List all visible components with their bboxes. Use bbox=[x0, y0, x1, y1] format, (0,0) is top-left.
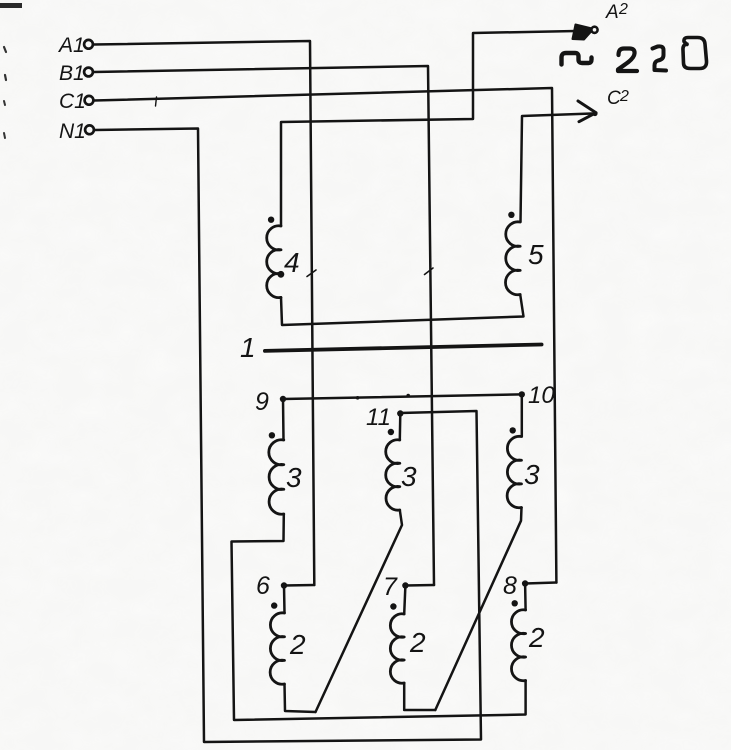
tick mark on A1 vertical bbox=[307, 270, 316, 277]
node 9 dot bbox=[280, 396, 286, 402]
winding 5 polarity dot bbox=[508, 212, 514, 218]
svg-text:10: 10 bbox=[528, 382, 555, 409]
winding 2c polarity dot bbox=[512, 600, 518, 606]
winding 2a coil bbox=[270, 613, 284, 684]
winding 2a polarity dot bbox=[271, 602, 277, 608]
wire node9 down to winding 3a bbox=[282, 399, 285, 440]
svg-text:2: 2 bbox=[409, 627, 426, 658]
svg-text:2: 2 bbox=[618, 1, 628, 18]
winding 2c coil bbox=[511, 610, 525, 681]
winding 3b polarity dot bbox=[388, 429, 394, 435]
winding 4 coil bbox=[267, 226, 281, 298]
svg-text:N1: N1 bbox=[59, 120, 86, 143]
terminal B1 circle bbox=[84, 68, 93, 77]
wire node7 down to winding 2b bbox=[404, 586, 405, 615]
svg-text:A: A bbox=[605, 2, 619, 23]
wire node11 down to winding 3b bbox=[399, 414, 402, 441]
wire coil4 bottom to coil5 bottom bbox=[281, 295, 524, 326]
winding 4 polarity dot bbox=[268, 217, 274, 223]
wire node10 down to winding 3c bbox=[521, 394, 524, 436]
terminal C1 circle bbox=[85, 96, 94, 105]
wire winding2a bottom step bbox=[285, 684, 316, 712]
wire B1 horizontal to vertical down bbox=[94, 66, 435, 585]
tick mark on C1 wire bbox=[156, 97, 157, 106]
svg-text:A1: A1 bbox=[57, 34, 85, 57]
svg-text:1: 1 bbox=[240, 332, 256, 363]
winding 3c coil bbox=[507, 436, 521, 507]
svg-text:9: 9 bbox=[255, 388, 269, 416]
arrow A2 head bbox=[573, 25, 594, 40]
svg-text:C: C bbox=[607, 88, 621, 109]
wire coil5 top to C2 arrow bbox=[521, 114, 593, 223]
wire node6 step up to A1 vertical bbox=[284, 584, 314, 587]
wire C1 horizontal to vertical down bbox=[94, 88, 556, 583]
node 10 dot bbox=[519, 391, 525, 397]
svg-text:2: 2 bbox=[619, 88, 629, 105]
node 6 dot bbox=[281, 582, 287, 588]
svg-text:3: 3 bbox=[286, 462, 302, 493]
value digit 2 (first) bbox=[618, 49, 637, 72]
wire node8 down to winding 2c bbox=[524, 584, 527, 611]
winding 3c polarity dot bbox=[510, 427, 516, 433]
svg-text:2: 2 bbox=[289, 629, 306, 660]
scan speck left margin 1 bbox=[4, 47, 6, 52]
scan speck left margin 2 bbox=[5, 75, 6, 80]
wire N1 to bottom outer rail bbox=[95, 129, 482, 743]
arrow A2 tip circle bbox=[591, 27, 597, 33]
svg-text:7: 7 bbox=[383, 573, 398, 601]
speck on 9-10 wire bbox=[356, 396, 360, 400]
node 7 dot bbox=[402, 582, 408, 588]
wire winding3b bottom diagonal to winding2a bottom bbox=[316, 510, 403, 712]
value ~ (AC sign) bbox=[562, 53, 592, 65]
svg-text:8: 8 bbox=[503, 572, 517, 600]
tick mark on B1 vertical bbox=[425, 268, 434, 275]
wire node9 to node10 bbox=[283, 394, 522, 399]
scan smudge top-left corner bbox=[0, 3, 22, 8]
svg-text:2: 2 bbox=[528, 622, 545, 653]
terminal N1 circle bbox=[85, 125, 94, 134]
scan speck left margin 3 bbox=[4, 101, 5, 105]
svg-text:B1: B1 bbox=[59, 62, 85, 85]
arrow C2 open head bbox=[578, 101, 596, 122]
wire node7 step up to B1 vertical bbox=[405, 584, 434, 587]
value digit 2 (second) bbox=[653, 46, 667, 70]
speck on 9-10 wire 2 bbox=[406, 394, 410, 398]
winding 2b polarity dot bbox=[390, 603, 396, 609]
svg-text:6: 6 bbox=[256, 572, 270, 600]
value digit 0 bbox=[683, 38, 707, 69]
wire node8 step up to C1 vertical bbox=[525, 583, 556, 584]
svg-text:3: 3 bbox=[524, 459, 540, 490]
svg-text:11: 11 bbox=[366, 404, 391, 431]
scan speck left margin 4 bbox=[4, 133, 5, 138]
wire A1 horizontal to vertical down bbox=[94, 41, 315, 585]
wire node6 down to winding 2a bbox=[283, 586, 286, 614]
wire winding3a bottom step to bottom inner rail bbox=[232, 514, 526, 720]
core line 1 bbox=[265, 345, 542, 351]
winding 2b coil bbox=[390, 614, 404, 683]
winding 3a coil bbox=[269, 440, 284, 514]
node 11 dot bbox=[397, 410, 403, 416]
terminal A1 circle bbox=[84, 40, 93, 49]
winding 5 coil bbox=[505, 222, 520, 295]
node 8 dot bbox=[522, 580, 528, 586]
svg-text:5: 5 bbox=[528, 239, 544, 270]
wire winding2b bottom step bbox=[404, 683, 435, 710]
svg-text:3: 3 bbox=[401, 461, 417, 492]
winding 3b coil bbox=[386, 440, 400, 510]
wire coil4 top to A2 arrow bbox=[281, 31, 576, 226]
winding 3a polarity dot bbox=[269, 432, 275, 438]
svg-text:C1: C1 bbox=[59, 90, 86, 113]
winding 4 mid dot bbox=[278, 271, 285, 278]
svg-text:4: 4 bbox=[284, 247, 300, 278]
arrow C2 tip dot bbox=[592, 111, 597, 116]
wire winding3c bottom diagonal to winding2b bottom bbox=[435, 508, 521, 711]
